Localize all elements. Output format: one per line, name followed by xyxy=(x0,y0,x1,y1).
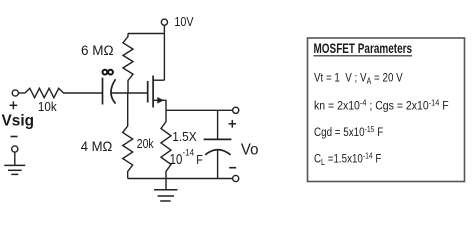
svg-text:10: 10 xyxy=(170,151,183,168)
svg-text:F: F xyxy=(196,152,203,167)
mosfet M1 source lead xyxy=(153,100,166,110)
capacitor Cinf flat plate xyxy=(102,78,104,105)
svg-text:1.5X: 1.5X xyxy=(172,129,197,144)
svg-text:20k: 20k xyxy=(137,137,154,151)
resistor 20k xyxy=(161,110,171,178)
capacitor Cinf curved plate xyxy=(111,79,116,103)
output terminal Vo+ xyxy=(233,107,239,113)
parameter box xyxy=(308,38,465,182)
ground (input side) xyxy=(4,165,25,174)
terminal (Vsig -) xyxy=(12,146,18,152)
plus sign of Vsig xyxy=(10,101,18,109)
svg-text:kn = 2x10-4 ; Cgs = 2x10-14 F: kn = 2x10-4 ; Cgs = 2x10-14 F xyxy=(314,98,449,113)
output terminal Vo- xyxy=(233,175,239,181)
supply terminal 10V xyxy=(161,19,167,25)
bottom rail wire xyxy=(128,178,233,180)
svg-text:6 MΩ: 6 MΩ xyxy=(81,43,114,58)
wire CL to bottom rail xyxy=(217,151,219,179)
svg-text:Vo: Vo xyxy=(241,141,259,159)
svg-text:MOSFET Parameters: MOSFET Parameters xyxy=(314,40,413,56)
input terminal (Vsig +) xyxy=(12,90,18,96)
wire 6M top to 10V rail xyxy=(128,33,164,35)
svg-text:Vsig: Vsig xyxy=(2,113,34,130)
svg-text:10V: 10V xyxy=(174,14,193,29)
resistor 6M xyxy=(123,34,133,94)
wire terminal to ground xyxy=(14,152,16,165)
mosfet M1 source arrow xyxy=(157,97,164,104)
resistor 10k xyxy=(25,88,66,97)
svg-text:4 MΩ: 4 MΩ xyxy=(81,139,113,154)
ground stub xyxy=(165,179,167,190)
resistor 4M xyxy=(123,93,133,179)
mosfet M1 gate bar xyxy=(147,81,149,103)
wire capacitor to gate xyxy=(111,92,148,94)
mosfet M1 channel bar xyxy=(152,76,154,108)
capacitor CL flat plate xyxy=(204,138,232,140)
svg-text:-14: -14 xyxy=(183,147,195,158)
capacitor CL curved plate xyxy=(205,150,230,155)
wire 10k to capacitor xyxy=(66,92,103,94)
mosfet M1 drain lead xyxy=(153,79,164,81)
minus sign of Vo xyxy=(229,167,236,169)
infinity label for Cinf xyxy=(103,70,113,75)
svg-text:10k: 10k xyxy=(38,99,58,114)
minus sign of Vsig xyxy=(11,136,18,138)
wire down to CL xyxy=(217,110,219,139)
output wire source to Vo+ xyxy=(166,109,233,111)
ground (main) xyxy=(154,190,178,201)
svg-text:Vt = 1 V ; VA = 20 V: Vt = 1 V ; VA = 20 V xyxy=(314,71,403,86)
wire input to 10k xyxy=(19,92,25,94)
wire 10V down to drain xyxy=(163,25,165,80)
plus sign of Vo xyxy=(229,120,237,128)
